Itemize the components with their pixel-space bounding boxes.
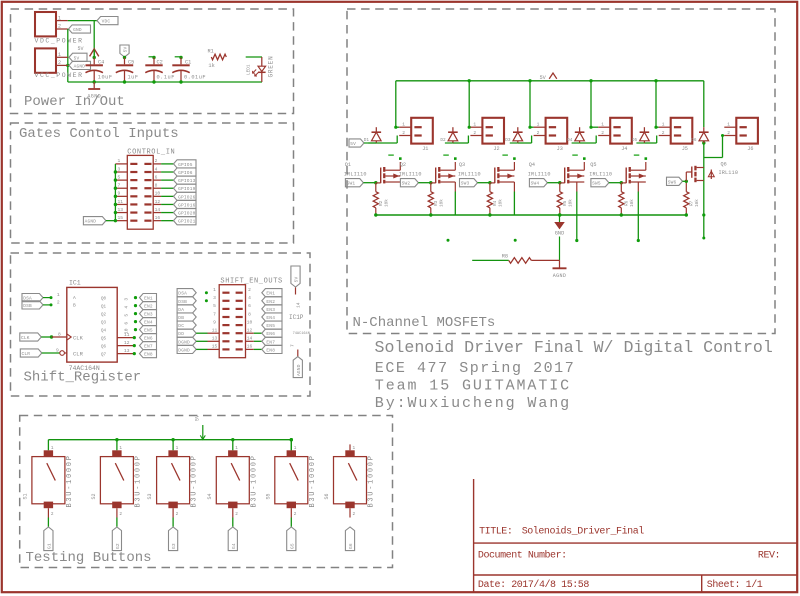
capacitor C1 (180, 58, 182, 65)
CONTROL_IN pin 15 (left) (115, 220, 127, 222)
svg-text:J4: J4 (621, 146, 627, 152)
svg-text:2: 2 (294, 512, 297, 517)
svg-text:B3U-1000P: B3U-1000P (134, 454, 142, 507)
svg-text:G5: G5 (289, 543, 295, 549)
pin 1 of J3 (534, 126, 546, 128)
svg-text:1: 1 (235, 446, 238, 451)
title block row divider 1 (474, 542, 797, 544)
svg-text:Q3: Q3 (459, 162, 465, 168)
resistor R8 (509, 258, 532, 264)
wire left row 7 (196, 340, 207, 342)
net flag DSA input A (22, 294, 43, 302)
net flag SW3 gate input (460, 179, 478, 187)
pin 1 of J1 (399, 126, 411, 128)
svg-text:R4: R4 (493, 200, 498, 206)
wire tick left of D5 (636, 142, 644, 144)
wire GND to AGND (559, 237, 561, 261)
svg-text:C4: C4 (98, 59, 104, 65)
pin 2 of J2 (470, 135, 482, 137)
capacitor C5 (124, 58, 126, 65)
wire stub C1 top (175, 56, 181, 58)
svg-text:10k: 10k (695, 199, 700, 207)
SHIFT_EN_OUTS pin stub right row 5 (236, 324, 243, 326)
resistor R5 gate pulldown (559, 183, 561, 192)
svg-text:8: 8 (248, 311, 251, 317)
svg-text:EN2: EN2 (266, 299, 275, 305)
net flag EN4 at IC1 (140, 318, 157, 326)
wire to flag GPIO21 (161, 220, 173, 222)
transistor Q2 (431, 182, 436, 184)
pin 15 of SHIFT_EN_OUTS (208, 348, 220, 350)
net flag G5 below S5 (287, 527, 296, 551)
svg-text:5V: 5V (350, 141, 356, 147)
svg-text:GPIO19: GPIO19 (178, 186, 196, 192)
switch S5 body (275, 457, 308, 504)
IC1 output pin 11 (117, 337, 134, 339)
svg-text:0.1uF: 0.1uF (157, 74, 175, 80)
junction R3 bus (429, 213, 432, 216)
wire bus to S2 (116, 440, 118, 451)
svg-text:0.01uF: 0.01uF (184, 74, 206, 80)
svg-text:2: 2 (176, 512, 179, 517)
svg-text:1: 1 (51, 446, 54, 451)
wire to flag GPIO26 (161, 195, 173, 197)
svg-text:GREEN: GREEN (268, 55, 275, 77)
junction left row 1 (205, 291, 208, 294)
svg-text:IC1P: IC1P (289, 314, 304, 321)
net flag G2 below S2 (112, 527, 121, 551)
svg-text:CLK: CLK (73, 335, 84, 342)
net flag CLK (20, 333, 42, 341)
pin 2 of J5 (659, 135, 671, 137)
junction output Q3 (134, 320, 137, 323)
CONTROL_IN pin 10 (right) (153, 195, 161, 197)
resistor R2 gate pulldown (375, 183, 377, 192)
svg-text:CLR: CLR (22, 351, 31, 357)
svg-text:SW4: SW4 (531, 181, 540, 187)
svg-text:J6: J6 (747, 146, 753, 152)
svg-text:9: 9 (213, 319, 216, 325)
wire CLR (42, 352, 60, 354)
CONTROL_IN pin 4 (right) (153, 171, 161, 173)
wire drain net unit 2 (453, 142, 469, 144)
junction C4 top (93, 56, 96, 59)
svg-text:SW3: SW3 (461, 181, 470, 187)
svg-text:S3: S3 (147, 493, 153, 499)
svg-text:7: 7 (290, 344, 296, 347)
svg-text:Solenoid Driver Final W/ Digit: Solenoid Driver Final W/ Digital Control (375, 338, 773, 357)
svg-text:11: 11 (124, 332, 130, 338)
svg-text:GPIO6: GPIO6 (178, 170, 193, 176)
net flag G6 below S6 (345, 527, 354, 551)
svg-text:VCC_POWER: VCC_POWER (35, 72, 84, 79)
svg-text:AGND: AGND (87, 94, 101, 100)
net flag EN7 at IC1 (140, 342, 157, 350)
junction unit 6 diode (702, 141, 705, 144)
svg-text:74AC164N: 74AC164N (293, 332, 310, 336)
source wire unit 3 (513, 182, 515, 192)
net flag DC left row 5 (177, 321, 196, 329)
svg-text:4: 4 (248, 295, 251, 301)
net flag EN6 at IC1 (140, 334, 157, 342)
junction output Q1 (134, 304, 137, 307)
connector J6 (736, 118, 758, 144)
svg-text:12: 12 (124, 340, 130, 346)
junction riser unit 1 (394, 126, 397, 129)
net flag GPIO6 (174, 168, 197, 176)
wire gate unit 6 (683, 180, 687, 182)
connector VCC_POWER (35, 48, 56, 72)
CONTROL_IN pin 1 (left) (115, 163, 127, 165)
junction C5 bus (123, 80, 126, 83)
SHIFT_EN_OUTS pin stub right row 8 (236, 348, 243, 350)
wire to flag GPIO5 (161, 163, 173, 165)
diode D1 (375, 127, 377, 132)
IC1 pin 9 CLR (64, 352, 66, 354)
mosfet source bus (375, 214, 686, 216)
wire bus to S5 (290, 440, 292, 451)
IC1P vcc pin stub (295, 288, 297, 295)
title block sheet divider (701, 575, 703, 593)
svg-text:G2: G2 (115, 543, 121, 549)
svg-text:R3: R3 (434, 200, 439, 206)
pin 2 of J3 (534, 135, 546, 137)
junction riser unit 5 (654, 126, 657, 129)
svg-text:74AC164N: 74AC164N (69, 365, 100, 372)
svg-text:J1: J1 (422, 146, 428, 152)
pin below S6 (349, 508, 351, 517)
svg-text:EN4: EN4 (144, 320, 153, 326)
wire to flag GPIO13 (161, 179, 173, 181)
svg-text:IRLI110: IRLI110 (458, 172, 481, 178)
wire left row 6 (196, 332, 207, 334)
svg-text:SW2: SW2 (402, 181, 411, 187)
svg-text:5V: 5V (74, 55, 80, 61)
SHIFT_EN_OUTS pin stub right row 7 (236, 340, 243, 342)
svg-text:S4: S4 (207, 493, 213, 499)
svg-text:EN1: EN1 (144, 296, 153, 302)
net flag GPIO20 (174, 208, 197, 216)
net flag GPIO21 (174, 217, 197, 225)
svg-text:Q6: Q6 (721, 162, 727, 168)
net flag SW6 gate input (667, 177, 683, 185)
pin below S1 (47, 508, 49, 517)
stray junction below unit2 (447, 239, 450, 242)
wire unit6 to J6 (704, 157, 723, 159)
junction R7 bus (685, 213, 688, 216)
svg-text:Q7: Q7 (101, 353, 107, 357)
riser wire unit 4 (590, 81, 592, 127)
switch S4 body (216, 457, 249, 504)
svg-text:1uF: 1uF (128, 74, 139, 80)
svg-text:1: 1 (473, 122, 476, 128)
net flag SW4 gate input (529, 179, 547, 187)
net flag GND at VDC_POWER pin2 (69, 25, 91, 33)
pin 1 of J2 (470, 126, 482, 128)
wire stub C2 top (149, 56, 155, 58)
transistor Q5 (621, 182, 626, 184)
source wire unit 2 (454, 182, 456, 192)
connector J5 (671, 118, 693, 144)
svg-text:IRLI110: IRLI110 (344, 172, 367, 178)
svg-text:Gates Contol Inputs: Gates Contol Inputs (19, 126, 179, 142)
junction B (50, 303, 53, 306)
svg-text:DSB: DSB (23, 303, 32, 309)
title block left border (473, 479, 475, 593)
svg-text:GPIO21: GPIO21 (178, 219, 196, 225)
net flag EN3 at IC1 (140, 310, 157, 318)
net flag CLR (20, 349, 42, 357)
svg-text:4: 4 (124, 306, 130, 309)
pin below S2 (116, 508, 118, 517)
net flag EN5 right row (262, 321, 282, 329)
junction CONTROL_IN left row 3 (114, 178, 117, 181)
svg-text:10k: 10k (568, 199, 573, 207)
svg-text:Q1: Q1 (101, 305, 107, 309)
junction gate unit 6 (685, 180, 688, 183)
svg-text:N-Channel MOSFETs: N-Channel MOSFETs (353, 315, 496, 331)
wire drain net unit 1 (376, 142, 397, 144)
net flag GPIO5 (174, 160, 197, 168)
svg-text:Q4: Q4 (529, 162, 535, 168)
svg-text:G6: G6 (348, 543, 354, 549)
wire riser elbow to pin1 unit 3 (530, 126, 534, 128)
wire S4 to flag (232, 518, 234, 527)
net flag GPIO13 (174, 176, 197, 184)
svg-text:5: 5 (118, 174, 121, 180)
IC1 CLK label and wedge (67, 334, 71, 340)
net flag SW2 gate input (400, 179, 418, 187)
junction gate unit 3 (488, 181, 491, 184)
svg-text:2: 2 (601, 130, 604, 136)
inversion bubble CLR (60, 351, 65, 356)
svg-text:S2: S2 (91, 493, 97, 499)
svg-text:1: 1 (58, 15, 61, 21)
SHIFT_EN_OUTS pin stub left row 8 (222, 348, 229, 350)
svg-text:EN1: EN1 (266, 291, 275, 297)
svg-text:8: 8 (58, 331, 61, 337)
wire S2 to flag (116, 518, 118, 527)
SHIFT_EN_OUTS pin stub right row 6 (236, 332, 243, 334)
svg-text:D1: D1 (364, 138, 370, 143)
net flag DSB input B (22, 301, 43, 309)
pin 14 of SHIFT_EN_OUTS (246, 340, 254, 342)
svg-text:10k: 10k (384, 199, 389, 207)
CONTROL_IN pin 12 (right) (153, 203, 161, 205)
svg-text:B3U-1000P: B3U-1000P (309, 454, 317, 507)
svg-text:D2: D2 (440, 138, 446, 143)
wire pin1 VDC to VDC flag (68, 20, 97, 22)
connector J3 (546, 118, 568, 144)
svg-text:14: 14 (155, 207, 161, 213)
CONTROL_IN pin 2 (right) (153, 163, 161, 165)
svg-text:TITLE:: TITLE: (479, 526, 512, 537)
SHIFT_EN_OUTS pin stub right row 3 (236, 308, 243, 310)
svg-text:1: 1 (402, 122, 405, 128)
net flag DSB left row 2 (177, 297, 196, 305)
svg-text:1: 1 (58, 52, 61, 58)
5V power rail (396, 80, 704, 82)
IC1 pin 8 CLK (52, 336, 67, 338)
net flag EN3 right row (262, 305, 282, 313)
svg-text:2: 2 (155, 158, 158, 164)
junction bus S5 (290, 438, 293, 441)
svg-text:16: 16 (155, 215, 161, 221)
wire riser elbow to pin1 unit 5 (656, 126, 659, 128)
SHIFT_EN_OUTS pin stub right row 1 (236, 292, 243, 294)
svg-text:B3U-1000P: B3U-1000P (191, 454, 199, 507)
wire bus to S4 (232, 440, 234, 451)
svg-text:Document Number:: Document Number: (478, 550, 567, 562)
svg-text:GPIO5: GPIO5 (178, 162, 193, 168)
svg-text:Sheet: 1/1: Sheet: 1/1 (707, 579, 763, 591)
CONTROL_IN pin 5 (left) (115, 179, 127, 181)
diode D4 (579, 127, 581, 132)
net flag DSA left row 1 (177, 289, 196, 297)
svg-text:2: 2 (235, 512, 238, 517)
section box Shift_Register (11, 253, 311, 396)
junction output Q5 (133, 336, 136, 339)
svg-text:By:Wuxiucheng Wang: By:Wuxiucheng Wang (375, 395, 571, 412)
ground symbol AGND below C4 (93, 82, 95, 88)
body diode of Q6 (710, 170, 712, 180)
junction rail unit 3 (528, 79, 531, 82)
wire R8 to AGND (531, 259, 559, 261)
svg-text:EN7: EN7 (266, 339, 275, 345)
svg-text:J5: J5 (682, 146, 688, 152)
junction C1 bus (179, 80, 182, 83)
net flag EN1 right row (262, 289, 282, 297)
svg-text:1: 1 (727, 122, 730, 128)
pin stub above S6 (349, 444, 351, 450)
svg-text:CLR: CLR (73, 351, 84, 358)
net flag EN6 right row (262, 329, 282, 337)
svg-text:R1: R1 (208, 48, 214, 54)
net flag AGND for CONTROL_IN (83, 217, 106, 225)
svg-text:EN3: EN3 (266, 307, 275, 313)
svg-text:R8: R8 (502, 254, 508, 260)
net flag G3 below S3 (169, 527, 178, 551)
wire S5 to flag (290, 518, 292, 527)
junction rail unit 2 (468, 79, 471, 82)
svg-text:6: 6 (124, 322, 130, 325)
net flag DD left row 6 (177, 329, 196, 337)
svg-text:R5: R5 (563, 200, 568, 206)
title block row divider 2 (474, 574, 797, 576)
svg-text:EN7: EN7 (144, 344, 153, 350)
junction left row 2 (205, 299, 208, 302)
junction bus S2 (115, 438, 118, 441)
net flag G1 below S1 (44, 527, 53, 551)
svg-text:2: 2 (58, 24, 61, 30)
button 5V supply bus (48, 439, 292, 441)
switch S3 body (157, 457, 190, 504)
net flag 5V at VCC_POWER pin1 (69, 53, 87, 61)
svg-text:R6: R6 (624, 200, 629, 206)
power symbol 5V arrow on rail (549, 73, 557, 79)
svg-text:AGND: AGND (74, 63, 86, 69)
svg-text:GND: GND (73, 27, 82, 33)
wire to R8 (472, 259, 509, 261)
junction C2 top (152, 56, 155, 59)
endpoint source unit 4 (575, 239, 578, 242)
svg-text:Q0: Q0 (101, 297, 107, 301)
svg-text:G4: G4 (231, 543, 237, 549)
svg-text:S1: S1 (22, 493, 28, 499)
resistor R7 gate pulldown (685, 183, 687, 192)
svg-text:Solenoids_Driver_Final: Solenoids_Driver_Final (522, 525, 645, 537)
svg-text:S5: S5 (265, 493, 271, 499)
wire to flag GPIO19 (161, 187, 173, 189)
ground symbol AGND below R8 (559, 260, 561, 268)
svg-text:7: 7 (118, 183, 121, 189)
svg-text:AGND: AGND (85, 219, 97, 225)
CONTROL_IN pin 14 (right) (153, 212, 161, 214)
svg-text:DSA: DSA (178, 291, 187, 297)
IC1 output pin 13 (117, 353, 134, 355)
junction CONTROL_IN left row 8 (114, 219, 117, 222)
stray junction below unit3 (514, 239, 517, 242)
riser wire unit 1 (395, 81, 397, 127)
svg-text:EN6: EN6 (266, 331, 275, 337)
svg-text:C1: C1 (185, 59, 191, 65)
junction riser unit 3 (528, 126, 531, 129)
wire VDC down to C4 node (93, 21, 95, 58)
svg-text:1: 1 (353, 446, 356, 451)
wire right row 6 (254, 332, 262, 334)
svg-text:Q6: Q6 (101, 345, 107, 349)
svg-text:DGND: DGND (178, 339, 190, 345)
net flag DB left row 4 (177, 313, 196, 321)
svg-text:G1: G1 (46, 543, 52, 549)
svg-text:D6: D6 (691, 138, 697, 143)
pin below S3 (172, 508, 174, 517)
svg-text:B: B (73, 303, 76, 309)
svg-text:G3: G3 (171, 543, 177, 549)
svg-text:R7: R7 (689, 200, 694, 206)
svg-text:3: 3 (213, 295, 216, 301)
connector J4 (610, 118, 632, 144)
svg-text:3: 3 (118, 166, 121, 172)
svg-text:5V: 5V (195, 415, 201, 421)
pin 2 of J4 (598, 135, 610, 137)
wire tick left of D3 (510, 142, 518, 144)
ground bus wire (68, 81, 262, 83)
IC1 output pin 12 (117, 345, 134, 347)
svg-text:10k: 10k (498, 199, 503, 207)
CONTROL_IN pin 11 (left) (115, 203, 127, 205)
net flag AGND at VCC_POWER pin2 (69, 61, 91, 69)
svg-text:2: 2 (353, 512, 356, 517)
svg-text:EN2: EN2 (144, 304, 153, 310)
svg-text:IRLI110: IRLI110 (528, 172, 551, 178)
endpoint unit6 drop (702, 237, 705, 240)
svg-text:10k: 10k (630, 199, 635, 207)
svg-text:C2: C2 (157, 59, 163, 65)
riser wire unit 5 (655, 81, 657, 127)
transistor Q6 (685, 172, 687, 181)
svg-text:ECE 477 Spring 2017: ECE 477 Spring 2017 (375, 360, 575, 377)
CONTROL_IN pin 3 (left) (115, 171, 127, 173)
junction CONTROL_IN left row 4 (114, 187, 117, 190)
svg-text:2: 2 (537, 130, 540, 136)
wire gate unit 3 (478, 182, 490, 184)
svg-text:4: 4 (155, 166, 158, 172)
junction R6 bus (620, 213, 623, 216)
power flag AGND for IC1P (293, 357, 302, 378)
pin 1 of J6 (724, 126, 736, 128)
svg-text:EN8: EN8 (144, 352, 153, 358)
